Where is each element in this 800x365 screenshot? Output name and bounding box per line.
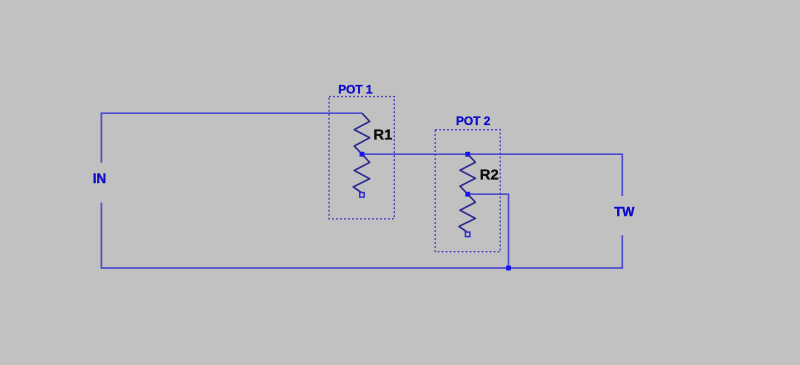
R1 bottom open terminal square xyxy=(360,193,365,198)
wire: left vertical lower segment (below IN) xyxy=(100,203,102,269)
potentiometer R2 (resistor body, zigzag) xyxy=(459,154,475,232)
wire: right vertical upper segment (above TW) xyxy=(621,153,623,196)
junction: R2 top on wiper wire xyxy=(465,152,470,157)
potentiometer R1 (resistor body, zigzag) xyxy=(353,113,369,193)
junction: tap wire on bottom wire xyxy=(506,266,511,271)
wire: left vertical upper segment (above IN) xyxy=(100,112,102,162)
wire: bottom horizontal xyxy=(101,267,622,269)
wire: top horizontal from IN loop to R1 top xyxy=(101,112,362,114)
junction: R1 wiper xyxy=(360,152,365,157)
wire: R2 wiper tap to bottom wire xyxy=(468,194,509,268)
dashed selection box POT 2 xyxy=(435,130,500,252)
svg-text:POT 1: POT 1 xyxy=(338,83,373,97)
svg-text:TW: TW xyxy=(614,204,635,219)
R2 bottom open terminal square xyxy=(465,232,470,237)
wire: R1 wiper horizontal to right vertical xyxy=(362,153,622,155)
junction: R2 wiper xyxy=(465,192,470,197)
svg-text:IN: IN xyxy=(93,171,106,186)
svg-text:R2: R2 xyxy=(480,167,499,183)
wire: right vertical lower segment (below TW) xyxy=(621,235,623,269)
svg-text:POT 2: POT 2 xyxy=(456,114,491,128)
svg-text:R1: R1 xyxy=(373,128,392,144)
dashed selection box POT 1 xyxy=(329,97,394,219)
